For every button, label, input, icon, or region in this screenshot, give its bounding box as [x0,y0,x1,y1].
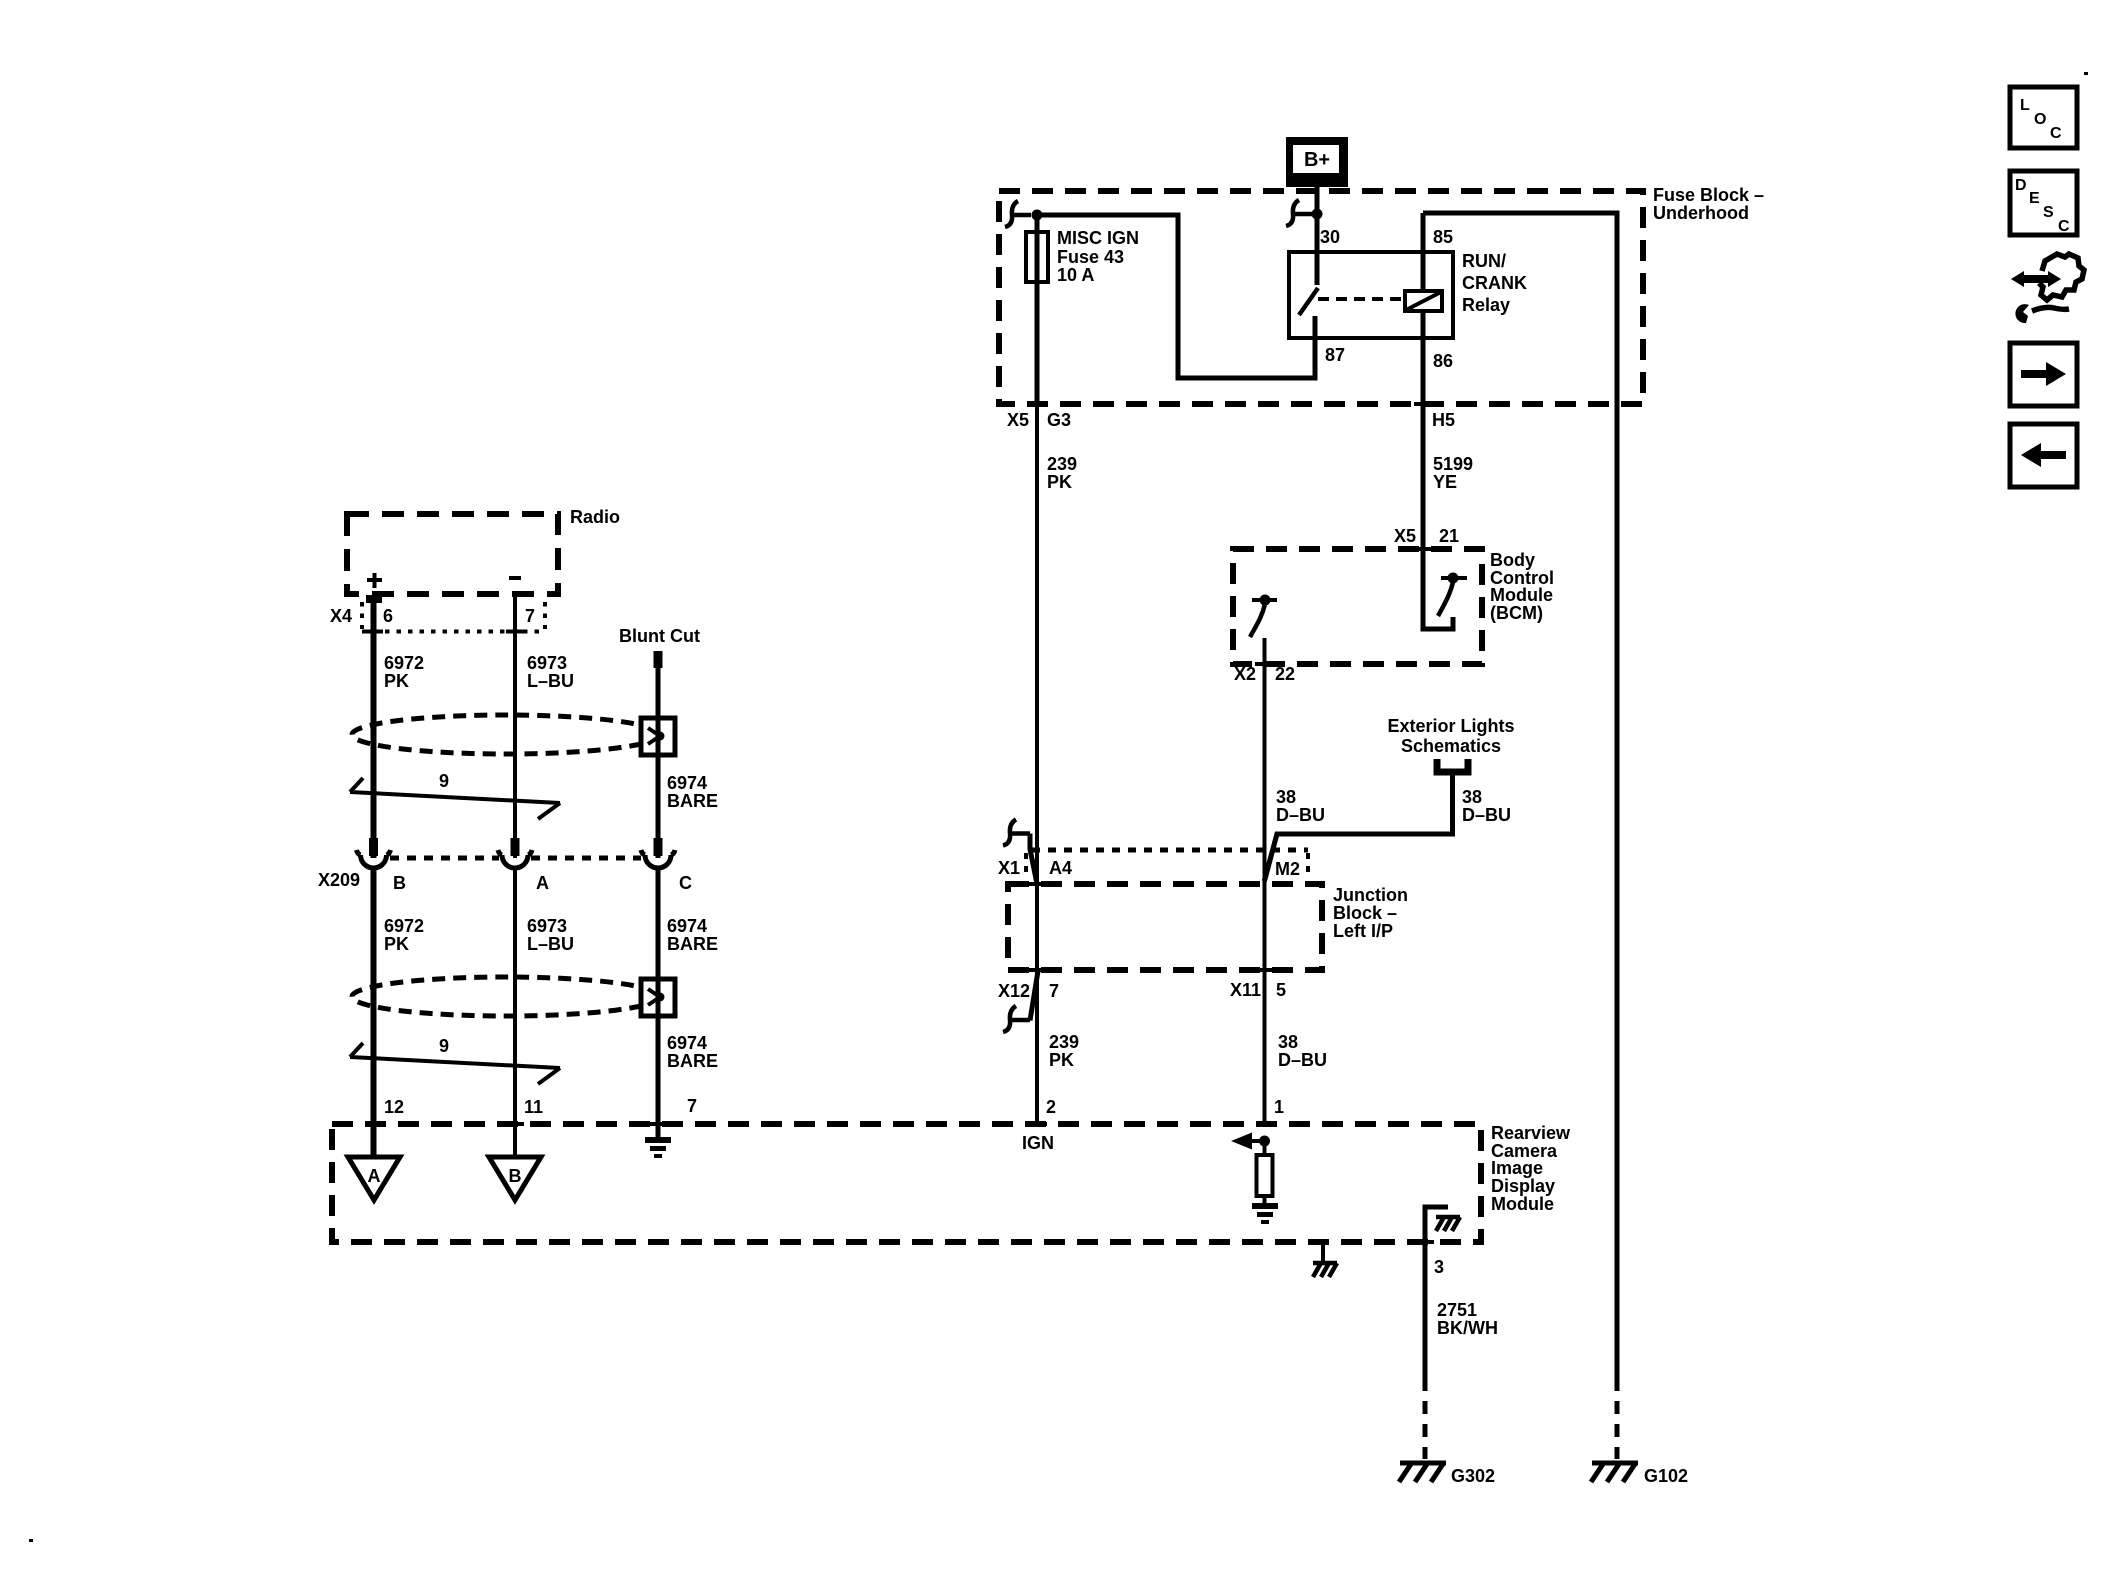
svg-text:11: 11 [524,1097,543,1117]
svg-text:D: D [2015,177,2027,194]
svg-text:RUN/: RUN/ [1462,251,1506,271]
svg-text:6972: 6972 [384,916,424,936]
svg-text:Module: Module [1491,1194,1554,1214]
svg-text:Blunt Cut: Blunt Cut [619,626,700,646]
svg-text:Body: Body [1490,550,1535,570]
svg-text:Radio: Radio [570,507,620,527]
svg-text:239: 239 [1047,454,1077,474]
svg-text:6972: 6972 [384,653,424,673]
svg-text:5: 5 [1276,980,1286,1000]
svg-text:BK/WH: BK/WH [1437,1318,1498,1338]
svg-text:Exterior Lights: Exterior Lights [1387,716,1514,736]
svg-text:L: L [2020,97,2030,114]
svg-text:CRANK: CRANK [1462,273,1527,293]
svg-text:(BCM): (BCM) [1490,603,1543,623]
svg-text:PK: PK [1049,1050,1074,1070]
svg-text:H5: H5 [1432,410,1455,430]
svg-text:G3: G3 [1047,410,1071,430]
svg-text:B+: B+ [1304,149,1330,171]
svg-text:6973: 6973 [527,653,567,673]
svg-text:87: 87 [1325,345,1345,365]
svg-text:L–BU: L–BU [527,934,574,954]
svg-text:Display: Display [1491,1176,1555,1196]
svg-text:C: C [679,873,692,893]
svg-text:X209: X209 [318,870,360,890]
svg-text:10 A: 10 A [1057,265,1094,285]
svg-text:6973: 6973 [527,916,567,936]
svg-text:Image: Image [1491,1158,1543,1178]
svg-text:12: 12 [384,1097,404,1117]
svg-text:X5: X5 [1007,410,1029,430]
svg-text:X2: X2 [1234,664,1256,684]
svg-text:X11: X11 [1230,980,1261,1000]
svg-text:Relay: Relay [1462,295,1510,315]
svg-text:6974: 6974 [667,773,707,793]
svg-text:Fuse 43: Fuse 43 [1057,247,1124,267]
svg-text:E: E [2029,190,2040,207]
svg-text:Junction: Junction [1333,885,1408,905]
svg-text:IGN: IGN [1022,1133,1054,1153]
svg-text:7: 7 [687,1096,697,1116]
svg-text:L–BU: L–BU [527,671,574,691]
svg-text:21: 21 [1439,526,1459,546]
svg-text:6: 6 [383,606,393,626]
svg-text:Block –: Block – [1333,903,1397,923]
svg-text:9: 9 [439,1036,449,1056]
svg-text:D–BU: D–BU [1462,805,1511,825]
svg-text:22: 22 [1275,664,1295,684]
svg-text:BARE: BARE [667,791,718,811]
svg-text:6974: 6974 [667,916,707,936]
svg-text:A4: A4 [1049,858,1072,878]
svg-text:Module: Module [1490,585,1553,605]
svg-text:C: C [2058,218,2070,235]
svg-text:A: A [368,1166,381,1186]
svg-text:9: 9 [439,771,449,791]
svg-text:1: 1 [1274,1097,1284,1117]
svg-text:38: 38 [1462,787,1482,807]
svg-text:Left I/P: Left I/P [1333,921,1393,941]
svg-text:M2: M2 [1275,859,1300,879]
svg-text:G102: G102 [1644,1466,1688,1486]
svg-text:D–BU: D–BU [1276,805,1325,825]
svg-text:7: 7 [525,606,535,626]
svg-text:BARE: BARE [667,1051,718,1071]
svg-text:2751: 2751 [1437,1300,1477,1320]
svg-text:30: 30 [1320,227,1340,247]
svg-text:86: 86 [1433,351,1453,371]
svg-text:C: C [2050,125,2062,142]
svg-text:Underhood: Underhood [1653,203,1749,223]
svg-text:5199: 5199 [1433,454,1473,474]
svg-text:6974: 6974 [667,1033,707,1053]
svg-text:Rearview: Rearview [1491,1123,1571,1143]
svg-text:B: B [393,873,406,893]
svg-text:MISC IGN: MISC IGN [1057,228,1139,248]
svg-text:239: 239 [1049,1032,1079,1052]
svg-text:38: 38 [1276,787,1296,807]
svg-text:D–BU: D–BU [1278,1050,1327,1070]
svg-text:PK: PK [1047,472,1072,492]
svg-text:BARE: BARE [667,934,718,954]
svg-text:S: S [2043,204,2054,221]
svg-text:3: 3 [1434,1257,1444,1277]
svg-text:2: 2 [1046,1097,1056,1117]
svg-text:X12: X12 [998,981,1030,1001]
svg-text:YE: YE [1433,472,1457,492]
svg-text:38: 38 [1278,1032,1298,1052]
svg-text:PK: PK [384,671,409,691]
svg-text:Fuse Block –: Fuse Block – [1653,185,1764,205]
svg-text:B: B [509,1166,522,1186]
svg-text:A: A [536,873,549,893]
svg-text:O: O [2034,111,2046,128]
svg-text:G302: G302 [1451,1466,1495,1486]
svg-text:PK: PK [384,934,409,954]
svg-text:7: 7 [1049,981,1059,1001]
svg-text:Schematics: Schematics [1401,736,1501,756]
svg-text:X5: X5 [1394,526,1416,546]
svg-text:X4: X4 [330,606,352,626]
svg-text:85: 85 [1433,227,1453,247]
svg-text:X1: X1 [998,858,1020,878]
